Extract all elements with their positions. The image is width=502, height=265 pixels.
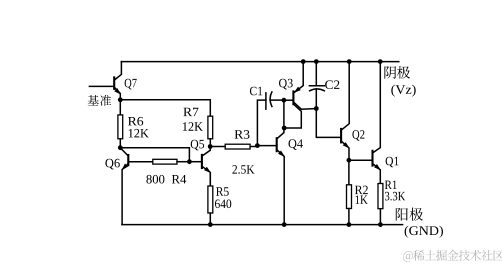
node R6 bottom / Q6 collector junction [118,145,123,150]
node R3 right / C1 / Q4 base junction [255,143,260,148]
node Q5 base junction [187,159,192,164]
wire REF node to R7 top [120,100,210,116]
resistor R1 3.3K [378,184,383,209]
transistor Q6 [121,148,129,156]
transistor Q3 (PNP) [292,91,294,104]
wire node A to node B [283,100,285,128]
wire R6 bottom node to Q5 base node [120,148,189,162]
wire Q2 emitter node to Q1 base [349,159,373,161]
capacitor C2 [315,62,317,86]
resistor R6 12K [119,100,121,115]
resistor R2 1K [348,160,350,185]
wire Q7 collector to top rail [115,62,122,80]
terminal anode label 阳极 [396,208,423,221]
wire Q7 base stub (REF lead) [89,85,114,87]
resistor R5 640 [209,173,211,186]
transistor Q5 [189,161,202,163]
transistor Q1 [371,151,373,166]
wire bottom rail (anode bus) [122,224,403,226]
watermark [403,250,502,262]
node Q2 emitter / R2 top / Q1 base junction [347,158,352,163]
resistor R3 2.5K [210,146,225,148]
resistor R4 800 [128,161,153,163]
capacitor C1 [257,100,266,146]
wire Q3 base from node A [284,99,293,101]
node B (Q3 collector / Q4 collector) [282,126,287,131]
node REF label 基准 [88,95,112,106]
node A (C1 right / Q3 base) [282,98,287,103]
node top rail junction dots [301,59,306,64]
wire top rail (cathode bus) [121,61,398,63]
node bottom rail junction dots [208,222,213,227]
transistor Q4 [257,145,276,147]
node C2 bottom / Q3 collector / Q2 base junction [314,106,319,111]
transistor Q2 [340,129,342,143]
resistor R7 12K [208,116,213,139]
transistor Q7 [113,77,115,89]
node Q5 collector / R7 bottom / R3 left junction [208,144,213,149]
terminal cathode label 阴极 [384,66,410,79]
